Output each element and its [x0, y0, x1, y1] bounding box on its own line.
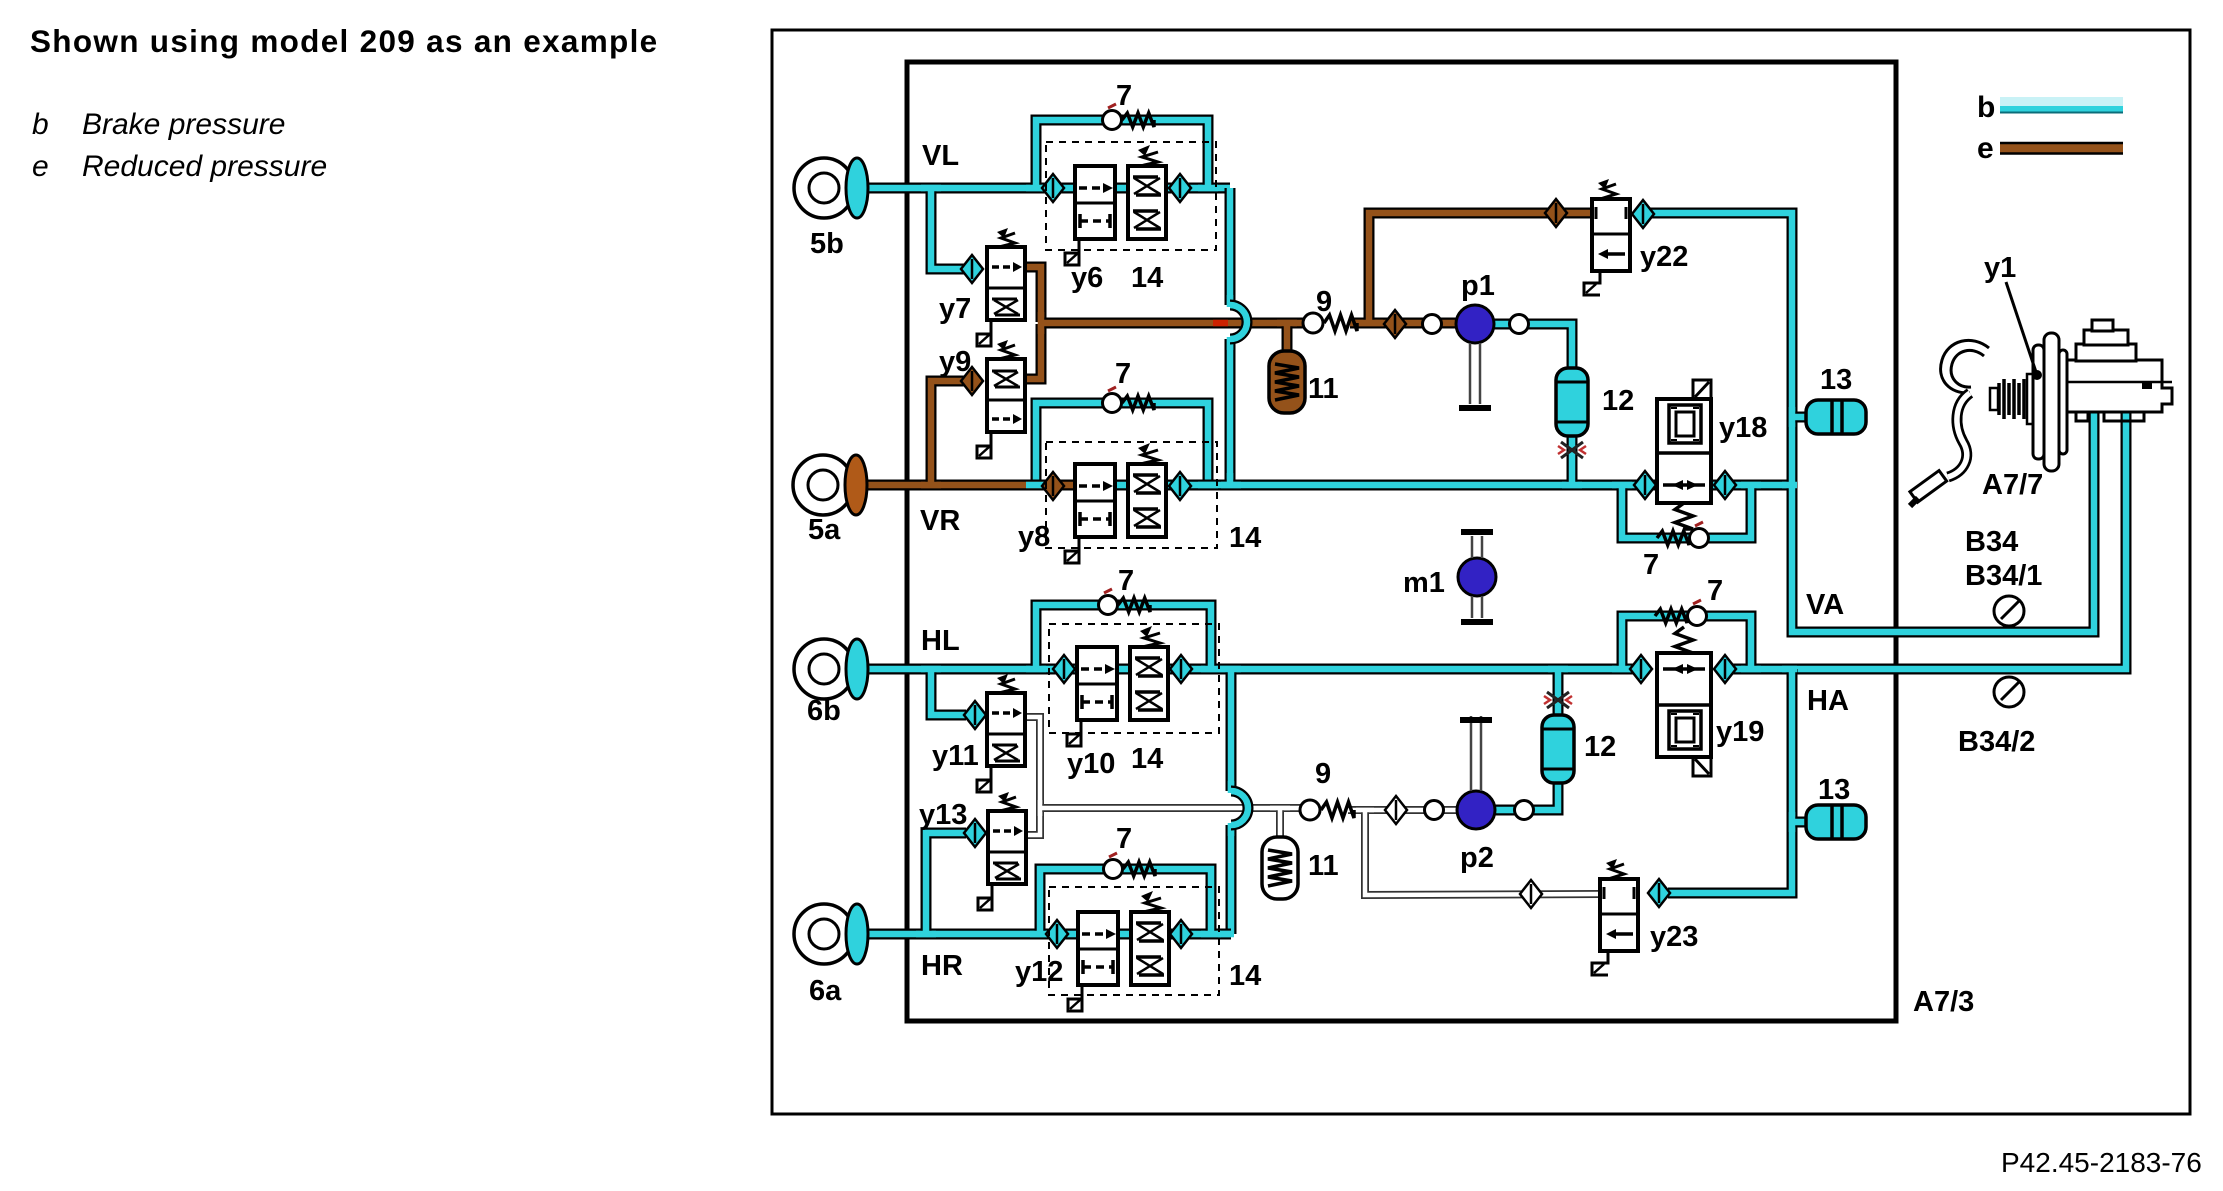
label 7 y19	[1707, 575, 1723, 607]
label y7	[939, 293, 971, 325]
wire VR bypass loop	[1036, 403, 1208, 485]
wire y9 branch from VR line	[931, 381, 966, 485]
wire y11 outlet gray	[1025, 717, 1040, 835]
check diamond HL inlet	[1053, 655, 1075, 683]
svg-text:VA: VA	[1806, 589, 1844, 621]
label y6	[1071, 262, 1103, 294]
dashed box 14 VL	[1046, 142, 1216, 250]
label 13 upper	[1820, 364, 1852, 396]
wire stub to muffler 13 lower	[1792, 817, 1810, 828]
wire stub to muffler 13 upper	[1792, 412, 1810, 423]
damper 12 lower	[1542, 715, 1574, 783]
svg-text:e: e	[1977, 132, 1994, 165]
pump p2 shaft	[1460, 716, 1492, 791]
wire HL down to HR lower	[1226, 825, 1237, 934]
svg-text:6a: 6a	[809, 975, 842, 1007]
relief valve 7 HR	[1104, 853, 1156, 879]
svg-text:A7/7: A7/7	[1982, 469, 2043, 501]
svg-text:y19: y19	[1716, 716, 1764, 748]
label HA	[1807, 685, 1849, 717]
svg-text:y7: y7	[939, 293, 971, 325]
check diamond y9 inlet	[961, 367, 983, 395]
leader line y1	[2006, 282, 2042, 380]
legend e italic	[32, 150, 49, 183]
check diamond p1 inlet	[1384, 310, 1406, 338]
wire HA line to master cylinder	[1725, 408, 2126, 669]
label 14 HR	[1229, 960, 1261, 992]
wire gray suction bus to p2	[1040, 804, 1302, 812]
svg-text:y1: y1	[1984, 252, 2016, 284]
svg-text:HR: HR	[921, 950, 963, 982]
label P42.45-2183-76	[2001, 1147, 2202, 1178]
inner box A7/3 frame	[907, 62, 1896, 1021]
valve y10 with filter 14	[1067, 626, 1168, 746]
check diamond VL outlet	[1169, 174, 1191, 202]
valve y11	[977, 674, 1025, 792]
wire HR to y13 branch	[926, 833, 966, 934]
wire gray drain loop to y23	[1365, 810, 1600, 895]
label 5a	[808, 514, 841, 546]
svg-text:m1: m1	[1403, 567, 1445, 599]
label 7 VL	[1116, 80, 1132, 112]
wire y19 relief loop	[1622, 616, 1751, 669]
label b legend	[1977, 91, 1995, 124]
relief valve 7 VR	[1103, 387, 1155, 413]
svg-text:7: 7	[1116, 823, 1132, 855]
label A7/3	[1913, 986, 1974, 1018]
legend e text	[82, 150, 327, 183]
svg-text:p1: p1	[1461, 270, 1495, 302]
wire HL to y11 branch	[931, 669, 966, 715]
label 14 HL	[1131, 743, 1163, 775]
label y11	[932, 740, 979, 772]
legend e line	[2000, 143, 2123, 154]
wire p2 outlet to HL	[1493, 669, 1558, 810]
wheel 6a rear right brake disc	[794, 904, 868, 964]
label VA	[1806, 589, 1844, 621]
valve y12 with filter 14	[1068, 891, 1169, 1011]
port circle p1 left	[1423, 315, 1442, 334]
svg-text:14: 14	[1131, 262, 1163, 294]
label 7 VR	[1115, 358, 1131, 390]
choke X upper	[1558, 442, 1586, 458]
pressure sensor B34/2	[1994, 677, 2024, 707]
legend b text	[82, 108, 285, 141]
svg-text:b: b	[1977, 91, 1995, 124]
outer frame	[772, 30, 2190, 1114]
label B34/1	[1965, 560, 2042, 592]
label p2	[1460, 842, 1494, 874]
svg-text:b: b	[32, 108, 49, 141]
muffler 13 lower	[1806, 805, 1866, 839]
label 9 front	[1316, 286, 1332, 318]
label y1	[1984, 252, 2016, 284]
wire HL brake line	[858, 664, 1641, 675]
wire brown up to y22	[1369, 213, 1594, 323]
svg-text:B34/1: B34/1	[1965, 560, 2042, 592]
label VL	[922, 140, 959, 172]
wire brown branch to accumulator 11 upper	[1282, 323, 1293, 352]
check diamond y22 outlet	[1632, 200, 1654, 228]
svg-text:y18: y18	[1719, 412, 1767, 444]
label y13	[919, 799, 967, 831]
svg-text:y22: y22	[1640, 241, 1688, 273]
svg-text:9: 9	[1315, 758, 1331, 790]
label y19	[1716, 716, 1764, 748]
wire junction patches cyan	[916, 188, 1797, 934]
svg-text:VR: VR	[920, 505, 960, 537]
svg-text:y10: y10	[1067, 748, 1115, 780]
label y10	[1067, 748, 1115, 780]
valve y23	[1592, 859, 1638, 975]
wire p1 outlet to VA	[1492, 324, 1572, 485]
check diamond y18 right	[1714, 471, 1736, 499]
label y23	[1650, 921, 1698, 953]
red mark on brown bus at arc	[1213, 320, 1228, 327]
svg-text:7: 7	[1643, 549, 1659, 581]
dashed box 14 HR	[1049, 887, 1219, 995]
svg-text:VL: VL	[922, 140, 959, 172]
label 12 lower	[1584, 731, 1616, 763]
check diamond y7 inlet	[961, 255, 983, 283]
label y12	[1015, 956, 1063, 988]
pressure sensor B34/1	[1994, 596, 2024, 626]
label 5b	[810, 228, 844, 260]
wire HL bypass loop	[1036, 605, 1211, 669]
label y22	[1640, 241, 1688, 273]
spring check 9 rear	[1300, 800, 1354, 820]
label 7 y18	[1643, 549, 1659, 581]
relief valve 7 HL	[1099, 589, 1151, 615]
wire VA line	[1100, 480, 1792, 491]
wheel 6b rear left brake disc	[794, 639, 868, 699]
svg-text:y13: y13	[919, 799, 967, 831]
svg-text:HL: HL	[921, 625, 960, 657]
label y8	[1018, 521, 1050, 553]
wire VR reduced pressure line from wheel 5a	[858, 480, 1100, 491]
wire junction patches gray	[1040, 800, 1374, 816]
check diamond y18 left	[1634, 471, 1656, 499]
svg-text:Brake pressure: Brake pressure	[82, 108, 285, 141]
choke X lower	[1544, 692, 1572, 708]
label HR	[921, 950, 963, 982]
check diamond y13 inlet	[964, 819, 986, 847]
check diamond y22 inlet	[1545, 199, 1567, 227]
wire junction patches brown	[921, 312, 1383, 485]
svg-text:11: 11	[1308, 373, 1339, 405]
svg-text:B34/2: B34/2	[1958, 726, 2035, 758]
svg-text:5a: 5a	[808, 514, 841, 546]
check diamond y19 right	[1714, 655, 1736, 683]
label y18	[1719, 412, 1767, 444]
legend b line	[2000, 97, 2123, 113]
port circle p2 right	[1515, 801, 1534, 820]
valve y8 with filter 14	[1065, 443, 1166, 563]
svg-text:7: 7	[1118, 565, 1134, 597]
svg-text:7: 7	[1115, 358, 1131, 390]
check diamond VR outlet	[1169, 472, 1191, 500]
svg-text:p2: p2	[1460, 842, 1494, 874]
valve y22	[1584, 179, 1630, 295]
motor m1	[1458, 558, 1496, 596]
relief 7 under y18	[1657, 522, 1709, 548]
svg-text:12: 12	[1584, 731, 1616, 763]
label HL	[921, 625, 960, 657]
wire VL bypass loop	[1036, 120, 1208, 188]
wire y23 outlet to HA	[1668, 669, 1792, 893]
label 11 upper	[1308, 373, 1339, 405]
label 6a	[809, 975, 842, 1007]
check diamond HR outlet	[1170, 920, 1192, 948]
valve y6 with filter 14	[1065, 145, 1166, 265]
wire arc hop over gray bus	[1231, 791, 1248, 825]
pump p1 shaft	[1459, 343, 1491, 408]
label VR	[920, 505, 960, 537]
wire y7 outlet brown	[1025, 267, 1041, 322]
svg-text:P42.45-2183-76: P42.45-2183-76	[2001, 1147, 2202, 1178]
relief 7 above y19	[1655, 600, 1707, 626]
label A7/7	[1982, 469, 2043, 501]
label y9	[939, 346, 971, 378]
wire gray branch to accumulator 11 lower	[1276, 808, 1284, 838]
check diamond y23 outlet	[1648, 879, 1670, 907]
legend b italic	[32, 108, 49, 141]
svg-text:y8: y8	[1018, 521, 1050, 553]
check diamond y19 left	[1630, 655, 1652, 683]
muffler 13 upper	[1806, 400, 1866, 434]
motor m1 shaft	[1461, 532, 1493, 622]
svg-text:y6: y6	[1071, 262, 1103, 294]
wire brown after spring 9 to p1	[1350, 318, 1460, 329]
svg-text:12: 12	[1602, 385, 1634, 417]
wire gray after spring 9 to p2	[1348, 806, 1460, 814]
svg-text:7: 7	[1707, 575, 1723, 607]
label 7 HR	[1116, 823, 1132, 855]
wire VL down to VA line upper	[1225, 188, 1236, 305]
label m1	[1403, 567, 1445, 599]
pump p2	[1457, 791, 1495, 829]
brake booster master cylinder unit y1 A7/7	[1910, 320, 2172, 506]
svg-text:y11: y11	[932, 740, 979, 772]
wire HR brake line	[858, 929, 1231, 940]
label p1	[1461, 270, 1495, 302]
label 6b	[807, 695, 841, 727]
wire VL brake line	[858, 183, 1230, 194]
valve y13	[978, 792, 1026, 910]
damper 12 upper	[1556, 368, 1588, 436]
label 7 HL	[1118, 565, 1134, 597]
check diamond y23 inlet	[1520, 880, 1542, 908]
valve y9	[977, 340, 1025, 458]
check diamond p2 inlet	[1385, 796, 1407, 824]
svg-text:13: 13	[1820, 364, 1852, 396]
label B34	[1965, 526, 2018, 558]
label B34/2	[1958, 726, 2035, 758]
label 11 lower	[1308, 850, 1339, 882]
svg-text:B34: B34	[1965, 526, 2018, 558]
dashed box 14 HL	[1049, 624, 1219, 733]
svg-text:HA: HA	[1807, 685, 1849, 717]
label 14 VR	[1229, 522, 1261, 554]
wheel 5b front left brake disc	[794, 158, 868, 218]
label 13 lower	[1818, 774, 1850, 806]
dashed box 14 VR	[1046, 442, 1217, 548]
title	[30, 23, 658, 59]
wire y18 relief loop	[1622, 485, 1751, 538]
svg-text:A7/3: A7/3	[1913, 986, 1974, 1018]
check diamond VL inlet	[1042, 174, 1064, 202]
accumulator 11 lower	[1262, 837, 1298, 899]
svg-text:14: 14	[1229, 960, 1261, 992]
port circle p1 right	[1510, 315, 1529, 334]
svg-text:13: 13	[1818, 774, 1850, 806]
label e legend	[1977, 132, 1994, 165]
wire y22 outlet to master cylinder	[1650, 213, 2094, 632]
svg-text:9: 9	[1316, 286, 1332, 318]
check diamond HL outlet	[1170, 655, 1192, 683]
svg-text:14: 14	[1229, 522, 1261, 554]
spring check 9 front	[1303, 313, 1357, 333]
wheel 5a front right brake disc	[793, 455, 867, 515]
check diamond VR inlet	[1042, 472, 1064, 500]
relief valve 7 VL	[1103, 104, 1155, 130]
port circle p2 left	[1425, 801, 1444, 820]
svg-text:y23: y23	[1650, 921, 1698, 953]
svg-text:y9: y9	[939, 346, 971, 378]
check diamond HR inlet	[1046, 920, 1068, 948]
pump p1	[1456, 305, 1494, 343]
wire brown bus to p1	[1041, 318, 1305, 329]
valve y18	[1657, 380, 1711, 529]
wire y9 outlet brown	[1024, 324, 1041, 379]
svg-text:14: 14	[1131, 743, 1163, 775]
svg-text:y12: y12	[1015, 956, 1063, 988]
wire VL down to VA line lower	[1225, 339, 1236, 485]
valve y7	[977, 228, 1025, 346]
label 14 VL	[1131, 262, 1163, 294]
wire HL down to HR upper	[1226, 669, 1237, 791]
valve y19	[1657, 627, 1711, 776]
accumulator 11 upper	[1269, 351, 1305, 413]
svg-text:e: e	[32, 150, 49, 183]
svg-text:Shown using model 209 as an ex: Shown using model 209 as an example	[30, 23, 658, 59]
svg-text:11: 11	[1308, 850, 1339, 882]
wire HR bypass loop	[1040, 869, 1211, 934]
wire arc hop over brown bus	[1230, 305, 1247, 339]
svg-text:Reduced pressure: Reduced pressure	[82, 150, 327, 183]
svg-text:5b: 5b	[810, 228, 844, 260]
svg-text:6b: 6b	[807, 695, 841, 727]
check diamond y11 inlet	[964, 701, 986, 729]
wire VL to y7 branch	[931, 188, 966, 269]
label 9 rear	[1315, 758, 1331, 790]
label 12 upper	[1602, 385, 1634, 417]
svg-text:7: 7	[1116, 80, 1132, 112]
